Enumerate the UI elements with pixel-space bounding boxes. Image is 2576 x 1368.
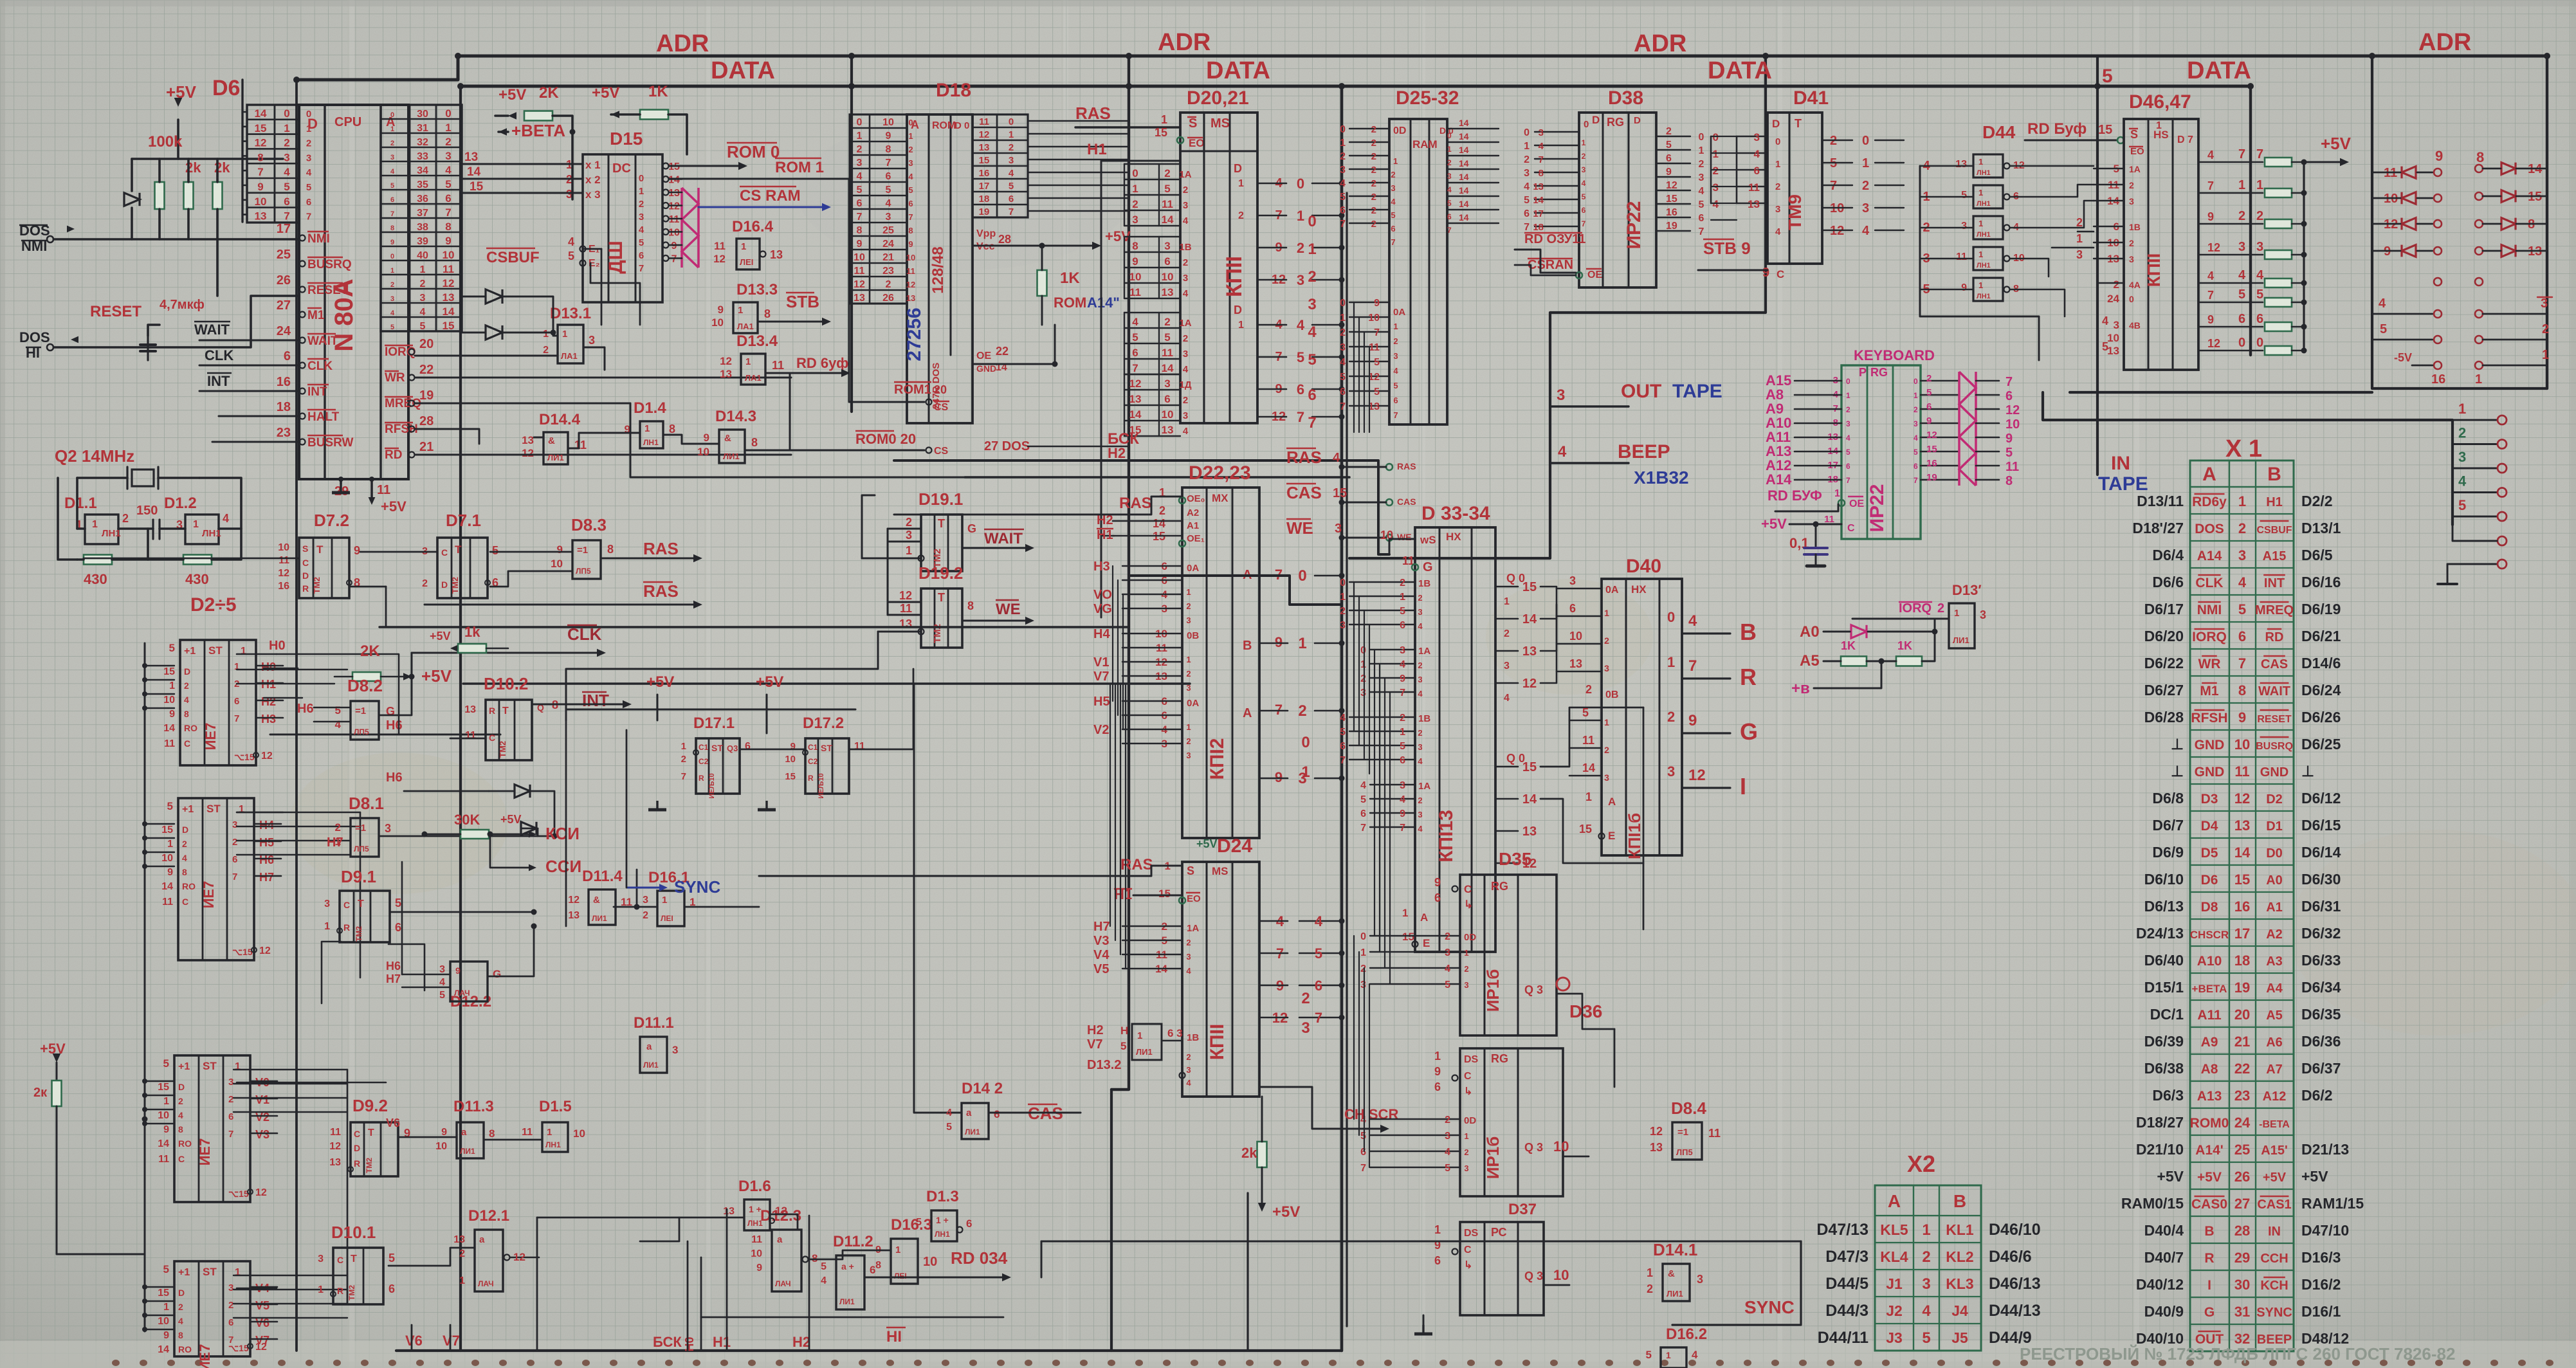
svg-text:2: 2 <box>2114 278 2119 291</box>
svg-text:TAPE: TAPE <box>2098 473 2148 495</box>
wire +5V stub <box>177 120 179 159</box>
svg-text:8: 8 <box>445 221 451 233</box>
svg-text:D: D <box>1234 162 1242 175</box>
svg-text:RAS: RAS <box>1075 104 1111 123</box>
svg-text:CSBUF: CSBUF <box>2256 525 2292 536</box>
wire lower right connector feed <box>2043 392 2453 525</box>
svg-text:D14 2: D14 2 <box>962 1080 1003 1097</box>
svg-text:9: 9 <box>1275 634 1283 650</box>
svg-text:RAS: RAS <box>643 539 679 558</box>
svg-text:11: 11 <box>164 738 175 749</box>
svg-text:D1.5: D1.5 <box>539 1098 572 1115</box>
svg-text:D24/13: D24/13 <box>2136 925 2184 942</box>
svg-text:3: 3 <box>324 898 330 909</box>
svg-text:1В: 1В <box>2129 222 2141 232</box>
svg-text:3: 3 <box>886 212 891 223</box>
diode A0 <box>1851 625 1867 638</box>
svg-text:5: 5 <box>1308 351 1316 369</box>
svg-text:12: 12 <box>720 355 732 367</box>
svg-text:-5V: -5V <box>2394 351 2412 364</box>
svg-text:5: 5 <box>492 544 498 557</box>
svg-text:4: 4 <box>2238 574 2247 590</box>
svg-text:5: 5 <box>1374 387 1380 397</box>
svg-text:3: 3 <box>1400 645 1405 656</box>
svg-text:S: S <box>2130 128 2138 141</box>
svg-text:14: 14 <box>443 306 455 318</box>
wires D46 area misc <box>2078 231 2094 233</box>
svg-text:1: 1 <box>2542 348 2549 362</box>
svg-text:ADR: ADR <box>2418 29 2471 56</box>
svg-text:D18: D18 <box>936 80 971 101</box>
svg-text:1А: 1А <box>2129 164 2141 174</box>
svg-text:2: 2 <box>1914 405 1918 414</box>
svg-text:16: 16 <box>2431 372 2445 387</box>
svg-text:10: 10 <box>1368 313 1380 324</box>
svg-text:+BETA: +BETA <box>2192 983 2227 995</box>
svg-text:D6/26: D6/26 <box>2301 709 2341 725</box>
svg-text:12: 12 <box>259 945 271 956</box>
svg-text:4: 4 <box>184 695 189 705</box>
svg-text:H7: H7 <box>259 871 274 884</box>
svg-text:2: 2 <box>422 578 428 589</box>
svg-text:26: 26 <box>882 293 894 304</box>
svg-text:2: 2 <box>1186 736 1191 746</box>
svg-text:1: 1 <box>1186 655 1191 664</box>
resistor 1K a5 2 <box>1896 657 1922 666</box>
svg-text:6: 6 <box>994 1108 1000 1120</box>
svg-text:RO: RO <box>182 881 196 891</box>
svg-text:12: 12 <box>899 589 912 602</box>
svg-text:D21/13: D21/13 <box>2301 1141 2349 1158</box>
svg-text:P: P <box>1859 366 1867 379</box>
svg-text:C: C <box>441 547 448 558</box>
svg-text:ROM0 20: ROM0 20 <box>855 431 916 447</box>
svg-text:16: 16 <box>1926 458 1937 469</box>
resistor R 100k <box>155 182 165 209</box>
svg-text:2: 2 <box>2542 322 2549 336</box>
svg-text:D44/11: D44/11 <box>1818 1329 1868 1347</box>
svg-text:1: 1 <box>420 264 426 275</box>
svg-text:2: 2 <box>1524 154 1530 165</box>
svg-text:D35: D35 <box>1499 849 1531 869</box>
svg-text:ИЕ7: ИЕ7 <box>197 1138 213 1166</box>
svg-text:7: 7 <box>1297 409 1304 425</box>
svg-text:6: 6 <box>1132 347 1138 359</box>
svg-text:A12: A12 <box>2263 1090 2287 1104</box>
svg-text:ЛИ1: ЛИ1 <box>460 1147 475 1156</box>
svg-text:IORQ: IORQ <box>1899 601 1932 616</box>
svg-text:D6/40: D6/40 <box>2144 952 2184 969</box>
svg-text:CLK: CLK <box>205 347 233 363</box>
svg-text:7: 7 <box>1391 237 1395 247</box>
svg-text:5: 5 <box>284 181 289 193</box>
D46 right outputs + resistor ladder <box>2198 161 2263 163</box>
svg-text:A0: A0 <box>2266 873 2283 888</box>
svg-text:R: R <box>699 774 704 783</box>
svg-text:15: 15 <box>1579 823 1592 835</box>
svg-text:MX: MX <box>1212 492 1229 504</box>
svg-text:1: 1 <box>1604 717 1609 727</box>
svg-text:D: D <box>178 1082 185 1092</box>
wire vertical bus x1324 (D18 feed) <box>850 56 853 412</box>
svg-text:ТМ2: ТМ2 <box>498 741 507 758</box>
svg-text:10: 10 <box>1553 1138 1569 1154</box>
svg-text:D40/7: D40/7 <box>2144 1249 2184 1266</box>
svg-text:12: 12 <box>1522 677 1537 691</box>
svg-text:ЛИ1: ЛИ1 <box>839 1297 855 1306</box>
svg-text:A8: A8 <box>2201 1062 2218 1077</box>
svg-text:6: 6 <box>306 197 311 208</box>
svg-text:A6: A6 <box>2266 1035 2283 1050</box>
svg-text:⊥: ⊥ <box>2301 763 2314 780</box>
svg-text:D6/7: D6/7 <box>2152 817 2184 834</box>
svg-text:7: 7 <box>445 206 451 219</box>
resistor 30K <box>461 830 489 839</box>
svg-text:H5: H5 <box>1093 695 1110 709</box>
svg-text:7: 7 <box>639 263 644 274</box>
svg-text:5: 5 <box>2380 322 2387 336</box>
svg-text:ИЕ7: ИЕ7 <box>203 723 219 751</box>
svg-text:CSRAN: CSRAN <box>1528 258 1573 272</box>
svg-text:10: 10 <box>1129 271 1142 283</box>
svg-text:7: 7 <box>2238 655 2246 671</box>
svg-text:6: 6 <box>1340 387 1346 397</box>
svg-text:15: 15 <box>158 1288 169 1299</box>
svg-text:D6/36: D6/36 <box>2301 1033 2341 1050</box>
svg-text:1А: 1А <box>1179 169 1191 180</box>
svg-text:РС: РС <box>1491 1226 1507 1239</box>
svg-text:T: T <box>938 591 945 604</box>
svg-text:3: 3 <box>306 152 311 163</box>
svg-text:4: 4 <box>1445 963 1450 974</box>
svg-text:3: 3 <box>1391 183 1395 193</box>
svg-text:3: 3 <box>1340 165 1346 176</box>
svg-text:9: 9 <box>2207 313 2214 326</box>
svg-text:RG: RG <box>1870 366 1888 379</box>
svg-text:8: 8 <box>1132 240 1138 252</box>
svg-text:2: 2 <box>1418 593 1422 603</box>
svg-text:11: 11 <box>574 439 587 451</box>
svg-text:17: 17 <box>979 181 990 192</box>
svg-text:2: 2 <box>639 199 644 210</box>
svg-text:2: 2 <box>1340 606 1346 617</box>
svg-text:3: 3 <box>2458 449 2466 465</box>
svg-text:WR: WR <box>2198 657 2221 671</box>
svg-text:ЛП5: ЛП5 <box>354 844 369 853</box>
svg-text:D1.1: D1.1 <box>64 495 97 512</box>
svg-text:S: S <box>302 543 308 554</box>
svg-text:4: 4 <box>1360 1115 1366 1126</box>
svg-text:2: 2 <box>1585 683 1592 696</box>
svg-text:+1: +1 <box>182 804 194 815</box>
svg-text:2: 2 <box>1713 165 1719 177</box>
D25 right data rows <box>1447 128 1499 129</box>
svg-text:CCH: CCH <box>2260 1252 2288 1266</box>
svg-text:=1: =1 <box>355 706 366 716</box>
svg-text:A11: A11 <box>2197 1008 2222 1023</box>
svg-text:BUSRQ: BUSRQ <box>307 258 352 271</box>
svg-text:7: 7 <box>671 254 677 265</box>
svg-text:T: T <box>502 706 509 716</box>
svg-text:23: 23 <box>2234 1088 2250 1104</box>
svg-text:13: 13 <box>255 210 267 223</box>
svg-text:DATA: DATA <box>2187 57 2251 84</box>
svg-text:5: 5 <box>1340 372 1346 383</box>
svg-text:0: 0 <box>1360 645 1366 656</box>
svg-text:0: 0 <box>1667 609 1675 625</box>
svg-text:3: 3 <box>1922 1275 1930 1293</box>
svg-text:3: 3 <box>1445 947 1450 958</box>
svg-text:7: 7 <box>2207 289 2214 302</box>
wire H6 H7 to D12.2/D9 <box>401 862 403 974</box>
svg-text:3: 3 <box>1400 780 1405 791</box>
svg-text:RO: RO <box>178 1138 192 1149</box>
svg-text:RD ОЗУ11: RD ОЗУ11 <box>1524 232 1585 246</box>
svg-text:ROM 0: ROM 0 <box>727 142 780 161</box>
svg-text:6: 6 <box>1393 396 1398 405</box>
D18 data out table <box>973 114 1028 217</box>
svg-text:11: 11 <box>279 555 289 566</box>
svg-text:14: 14 <box>2234 844 2251 861</box>
svg-text:D6/15: D6/15 <box>2301 817 2341 834</box>
svg-text:CH SCR: CH SCR <box>1344 1106 1398 1122</box>
svg-text:A: A <box>1608 796 1616 808</box>
horizontal y2048 <box>701 1317 1003 1318</box>
wire misc row1 <box>237 669 347 670</box>
svg-text:9: 9 <box>718 304 724 316</box>
svg-text:1: 1 <box>241 646 246 657</box>
svg-text:13: 13 <box>1522 825 1537 839</box>
svg-text:13: 13 <box>906 293 915 303</box>
svg-text:ИР1б: ИР1б <box>1483 1136 1503 1180</box>
svg-text:CLK: CLK <box>307 360 333 373</box>
svg-text:4: 4 <box>1340 713 1346 724</box>
svg-text:4,7мкф: 4,7мкф <box>160 298 205 312</box>
svg-text:=1: =1 <box>355 823 366 834</box>
svg-text:ЛН1: ЛН1 <box>643 438 659 447</box>
svg-text:C1: C1 <box>699 743 709 752</box>
connector X2 table grid <box>1875 1185 1981 1351</box>
svg-text:KL5: KL5 <box>1880 1221 1908 1238</box>
svg-text:5: 5 <box>1582 706 1589 719</box>
svg-text:ЛИ1: ЛИ1 <box>965 1127 980 1136</box>
svg-text:1: 1 <box>459 1275 465 1286</box>
svg-text:0: 0 <box>1009 116 1014 127</box>
svg-text:10: 10 <box>1162 271 1174 283</box>
wire diode block frame <box>2372 149 2547 388</box>
svg-text:1: 1 <box>163 1096 169 1107</box>
svg-text:RAM0/15: RAM0/15 <box>2121 1195 2184 1212</box>
svg-text:2: 2 <box>1186 938 1191 947</box>
svg-text:D6/4: D6/4 <box>2152 547 2184 563</box>
wire D9.1 qbar <box>388 944 425 990</box>
svg-text:ST: ST <box>203 1060 217 1072</box>
svg-text:D1: D1 <box>2266 819 2283 834</box>
svg-text:3: 3 <box>1846 419 1850 428</box>
svg-text:⌥15: ⌥15 <box>232 947 253 957</box>
svg-text:10: 10 <box>2005 417 2020 432</box>
svg-text:3: 3 <box>2076 248 2083 261</box>
svg-text:15: 15 <box>1926 444 1937 455</box>
svg-text:100k: 100k <box>148 133 183 150</box>
svg-text:R: R <box>354 1158 360 1169</box>
svg-text:1: 1 <box>1434 1223 1441 1236</box>
svg-text:ST: ST <box>208 644 223 657</box>
svg-text:RESET: RESET <box>2257 714 2292 725</box>
svg-text:1 +: 1 + <box>749 1204 762 1214</box>
svg-text:14: 14 <box>1459 158 1469 169</box>
svg-text:15: 15 <box>1155 126 1167 139</box>
svg-text:IN: IN <box>2268 1225 2281 1239</box>
svg-text:H0: H0 <box>261 661 276 673</box>
svg-text:D14.3: D14.3 <box>715 408 756 425</box>
svg-text:3: 3 <box>1418 607 1422 617</box>
svg-text:2: 2 <box>681 754 686 765</box>
svg-text:3: 3 <box>1445 1131 1450 1142</box>
svg-text:4: 4 <box>908 172 913 181</box>
svg-text:12: 12 <box>513 1251 525 1263</box>
svg-text:12: 12 <box>2207 241 2220 254</box>
svg-text:D40/12: D40/12 <box>2136 1276 2184 1293</box>
svg-text:D6/33: D6/33 <box>2301 952 2341 969</box>
svg-text:2: 2 <box>1922 1248 1930 1266</box>
svg-text:V2: V2 <box>1093 723 1109 737</box>
svg-text:3: 3 <box>1132 214 1138 226</box>
svg-text:H2: H2 <box>1108 445 1126 461</box>
svg-text:7: 7 <box>1846 476 1850 485</box>
svg-text:2: 2 <box>1340 151 1346 162</box>
svg-text:A9: A9 <box>2201 1035 2218 1050</box>
svg-text:1: 1 <box>1434 1050 1441 1062</box>
svg-text:CAS: CAS <box>1397 497 1416 507</box>
svg-text:1: 1 <box>1393 156 1398 166</box>
svg-text:4: 4 <box>886 198 891 209</box>
wire H1 to D20 <box>1101 161 1102 617</box>
svg-text:3: 3 <box>1447 172 1452 181</box>
svg-text:6: 6 <box>1434 1081 1441 1093</box>
svg-text:11: 11 <box>330 1127 341 1138</box>
svg-text:ЛН1: ЛН1 <box>747 1219 763 1228</box>
svg-text:5: 5 <box>1297 349 1304 365</box>
wire H0 route <box>277 654 399 734</box>
SIP output joins <box>669 165 682 167</box>
svg-text:RD Буф: RD Буф <box>2027 120 2087 138</box>
svg-text:1: 1 <box>1340 138 1346 149</box>
svg-text:11: 11 <box>906 266 915 276</box>
svg-text:D44/5: D44/5 <box>1825 1275 1868 1293</box>
svg-text:10: 10 <box>161 853 173 864</box>
svg-text:H1: H1 <box>2266 495 2283 509</box>
svg-text:4: 4 <box>306 167 312 178</box>
svg-text:13: 13 <box>2107 345 2119 357</box>
svg-text:ЛН1: ЛН1 <box>935 1230 950 1239</box>
RFSH wire <box>415 429 479 444</box>
svg-text:КПІІ: КПІІ <box>2144 253 2164 287</box>
svg-text:12: 12 <box>668 201 680 212</box>
svg-text:2: 2 <box>184 680 189 691</box>
svg-text:15: 15 <box>1666 194 1677 205</box>
svg-text:5: 5 <box>335 704 341 716</box>
svg-text:13: 13 <box>568 910 580 921</box>
svg-text:X 1: X 1 <box>2225 435 2262 462</box>
svg-text:10: 10 <box>923 1255 937 1269</box>
svg-text:D13.4: D13.4 <box>736 333 778 350</box>
svg-text:MREQ: MREQ <box>2255 603 2294 617</box>
svg-text:4: 4 <box>568 235 574 248</box>
svg-text:RFSH: RFSH <box>2191 711 2227 725</box>
svg-text:0: 0 <box>1862 134 1869 148</box>
svg-text:2k: 2k <box>1241 1145 1257 1161</box>
svg-text:0: 0 <box>1447 131 1452 140</box>
svg-text:1В: 1В <box>1179 242 1191 253</box>
svg-text:OE: OE <box>1587 269 1602 280</box>
svg-text:0: 0 <box>2256 336 2263 350</box>
svg-text:D47/13: D47/13 <box>1816 1221 1868 1239</box>
svg-text:2: 2 <box>228 1300 233 1311</box>
svg-text:0: 0 <box>284 107 289 120</box>
mid circles <box>2434 278 2442 286</box>
svg-text:G: G <box>1740 718 1758 745</box>
svg-text:2: 2 <box>1418 728 1422 738</box>
svg-text:R: R <box>337 1286 343 1296</box>
svg-text:3: 3 <box>1164 240 1170 252</box>
wire vertical bus x2086 center divider <box>1340 86 1344 1351</box>
svg-text:2: 2 <box>1183 257 1188 268</box>
svg-text:D11.3: D11.3 <box>453 1098 494 1115</box>
svg-text:6: 6 <box>1164 255 1170 268</box>
svg-text:ЛЕІ: ЛЕІ <box>894 1272 907 1281</box>
svg-text:RESET: RESET <box>307 284 349 297</box>
svg-text:4: 4 <box>445 164 452 176</box>
svg-text:15: 15 <box>163 666 175 677</box>
wires CPU data pins to bus <box>242 111 247 113</box>
svg-text:4: 4 <box>639 224 644 235</box>
svg-text:7: 7 <box>234 713 239 724</box>
svg-text:2: 2 <box>1445 1115 1450 1126</box>
WR wire <box>415 377 791 379</box>
svg-text:3: 3 <box>639 212 644 223</box>
svg-text:T: T <box>368 1127 374 1138</box>
svg-text:4: 4 <box>2256 268 2264 282</box>
svg-text:0: 0 <box>1340 578 1346 588</box>
svg-text:D1.6: D1.6 <box>738 1178 771 1195</box>
svg-text:A14": A14" <box>1087 295 1120 311</box>
svg-text:25: 25 <box>882 225 894 236</box>
svg-text:1 +: 1 + <box>936 1215 949 1225</box>
svg-text:D13.3: D13.3 <box>736 281 778 298</box>
wire corner big <box>1129 576 1342 605</box>
svg-text:Vpp: Vpp <box>976 228 996 239</box>
svg-text:RD: RD <box>385 448 402 462</box>
svg-text:3: 3 <box>643 895 648 906</box>
svg-text:OE₁: OE₁ <box>1187 533 1205 544</box>
svg-text:A14: A14 <box>2197 549 2222 563</box>
svg-text:D44/3: D44/3 <box>1825 1302 1868 1320</box>
svg-text:7: 7 <box>1132 362 1138 374</box>
svg-text:7: 7 <box>2256 147 2263 161</box>
svg-text:24: 24 <box>277 324 291 338</box>
svg-text:ТМ2: ТМ2 <box>365 1158 374 1173</box>
svg-text:D: D <box>184 666 190 677</box>
svg-text:2: 2 <box>1418 796 1422 805</box>
svg-text:HALT: HALT <box>307 410 340 424</box>
svg-text:2: 2 <box>420 278 426 289</box>
left feeds from bus to D44/D46 <box>2097 282 2124 284</box>
svg-text:D8.4: D8.4 <box>1671 1099 1706 1118</box>
wire reset net <box>54 296 299 347</box>
svg-text:11: 11 <box>522 1127 533 1138</box>
svg-text:9: 9 <box>1374 298 1380 309</box>
